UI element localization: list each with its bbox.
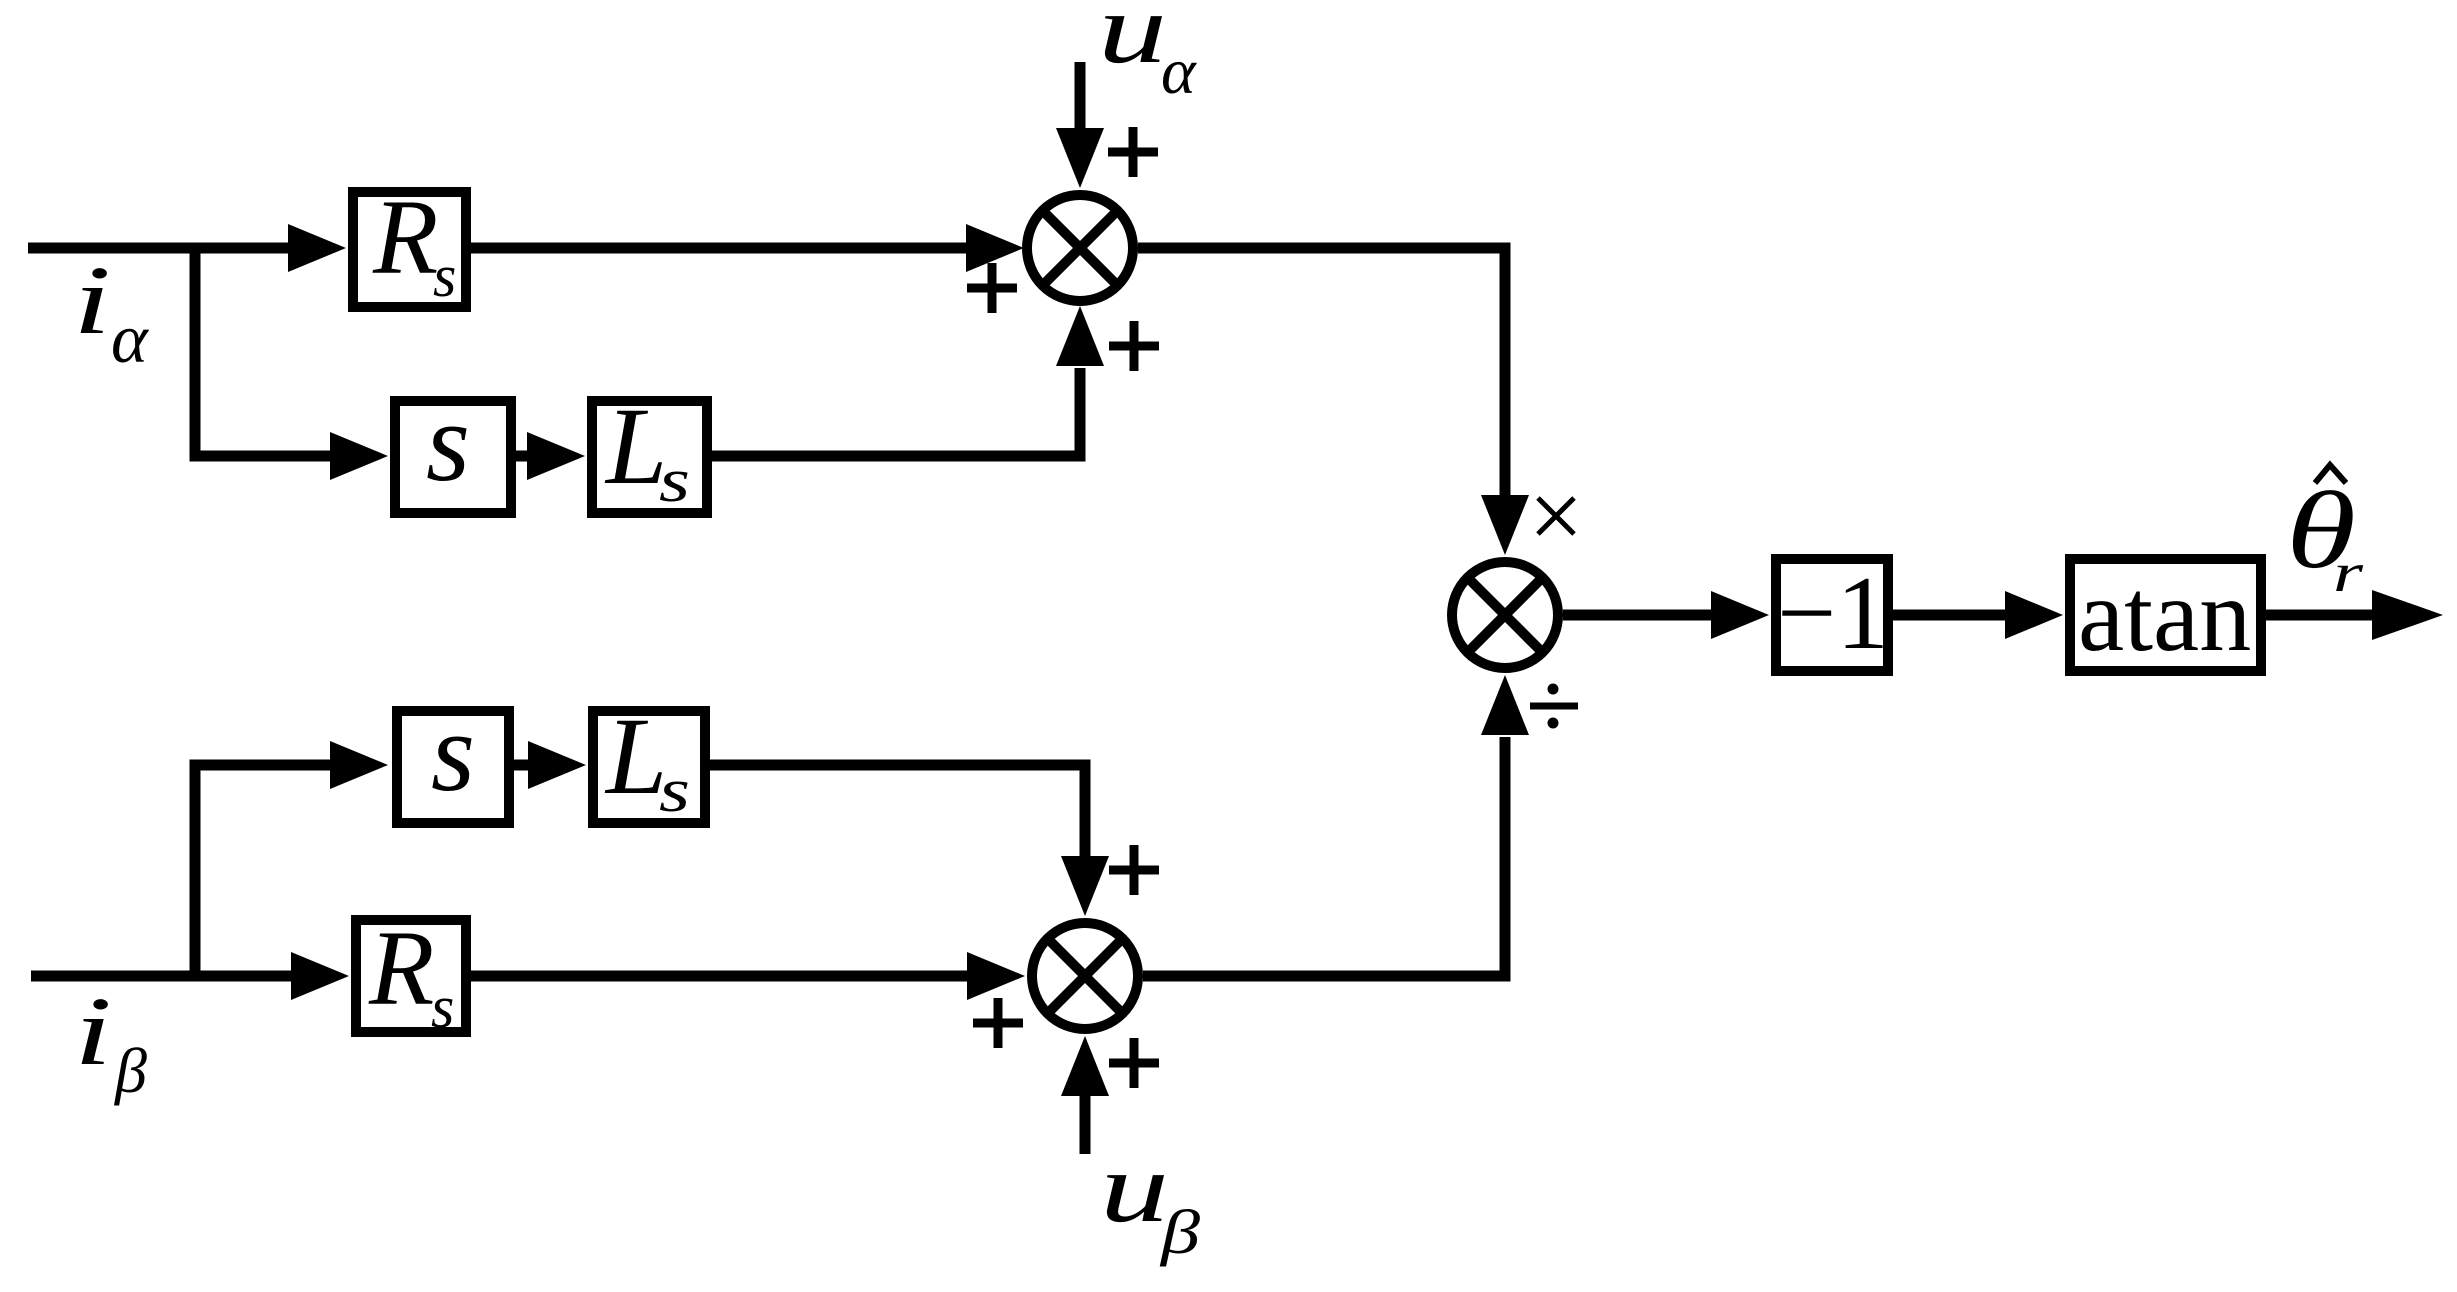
plus sign sum1 bottom input (1109, 321, 1159, 371)
arrowhead into mult top (1481, 495, 1529, 555)
plus sign sum2 top input (1109, 845, 1159, 895)
wire s to Ls (bottom) (514, 760, 530, 771)
wire sum1 to mult top (1138, 248, 1505, 497)
svg-text:β: β (1160, 1199, 1200, 1267)
block atan (2070, 558, 2261, 673)
multiply label (1538, 498, 1574, 534)
svg-text:r: r (2333, 542, 2364, 603)
plus sign sum1 left input (967, 263, 1017, 313)
arrowhead into sum1 bottom (1056, 306, 1104, 366)
wire i-alpha input (28, 243, 292, 254)
svg-text:atan: atan (2078, 558, 2251, 673)
svg-text:−1: −1 (1777, 554, 1889, 671)
svg-text:s: s (431, 974, 454, 1040)
label theta-hat-r output (2286, 465, 2364, 603)
block Rs bottom (356, 910, 466, 1040)
wire i-alpha branch to s block (195, 248, 334, 456)
svg-text:R: R (372, 179, 438, 297)
summing junction sum1 (1027, 195, 1133, 301)
arrowhead into Rs bottom (291, 952, 349, 1000)
wire Rs(top) to sum1 (471, 243, 968, 254)
block s bottom (397, 690, 509, 823)
block Ls top (592, 385, 707, 515)
divide label (1530, 684, 1578, 729)
wire -1 to atan (1893, 610, 2007, 621)
wire Ls(top) to sum1 bottom (712, 368, 1080, 456)
wire s to Ls (top) (516, 451, 531, 462)
arrowhead into mult bottom (1481, 675, 1529, 735)
wire Ls(bottom) to sum2 top (710, 765, 1085, 858)
arrowhead into s top (330, 432, 388, 480)
label u-alpha (1098, 0, 1197, 108)
wire u-alpha input (1075, 62, 1086, 130)
wire sum2 to mult bottom (1143, 737, 1505, 976)
arrowhead into Rs top (288, 224, 346, 272)
arrowhead into sum2 top (1061, 856, 1109, 916)
plus sign sum1 top input (1108, 127, 1158, 177)
arrowhead into sum1 left (966, 224, 1024, 272)
arrowhead into atan box (2005, 591, 2063, 639)
svg-text:s: s (659, 447, 690, 515)
wire i-beta branch to s block (195, 765, 334, 976)
block Ls bottom (593, 695, 705, 825)
wire atan output (2266, 610, 2374, 621)
wire i-beta input (31, 971, 293, 982)
summing junction sum2 (1032, 923, 1138, 1029)
wire Rs(bottom) to sum2 (471, 971, 969, 982)
wire u-beta input (1080, 1094, 1091, 1154)
svg-text:u: u (1098, 0, 1167, 84)
arrowhead into Ls top (527, 432, 585, 480)
arrowhead into sum2 left (967, 952, 1025, 1000)
svg-text:α: α (111, 301, 149, 378)
label i-beta (74, 978, 147, 1106)
block -1 (1776, 554, 1889, 671)
svg-text:s: s (433, 243, 456, 309)
arrowhead final output (2372, 590, 2443, 640)
arrowhead into -1 box (1711, 591, 1769, 639)
wire mult to -1 box (1563, 610, 1713, 621)
block s top (395, 380, 511, 513)
svg-text:s: s (659, 757, 690, 825)
label i-alpha (73, 247, 149, 378)
svg-text:L: L (604, 385, 667, 507)
svg-text:i: i (74, 978, 112, 1086)
svg-text:u: u (1100, 1132, 1169, 1243)
block Rs top (353, 179, 466, 309)
svg-text:i: i (73, 247, 111, 355)
arrowhead into Ls bottom (528, 741, 586, 789)
svg-text:β: β (113, 1035, 147, 1106)
multiplier-divider junction (1452, 562, 1558, 668)
svg-text:s: s (426, 380, 470, 505)
svg-text:L: L (604, 695, 667, 817)
svg-text:R: R (368, 910, 434, 1028)
arrowhead u-beta into sum2 bottom (1061, 1036, 1109, 1096)
svg-text:s: s (431, 690, 475, 815)
arrowhead u-alpha into sum1 top (1056, 128, 1104, 188)
plus sign sum2 bottom input (1109, 1038, 1159, 1088)
label u-beta (1100, 1132, 1200, 1267)
plus sign sum2 left input (973, 998, 1023, 1048)
svg-text:α: α (1161, 35, 1197, 108)
arrowhead into s bottom (330, 741, 388, 789)
